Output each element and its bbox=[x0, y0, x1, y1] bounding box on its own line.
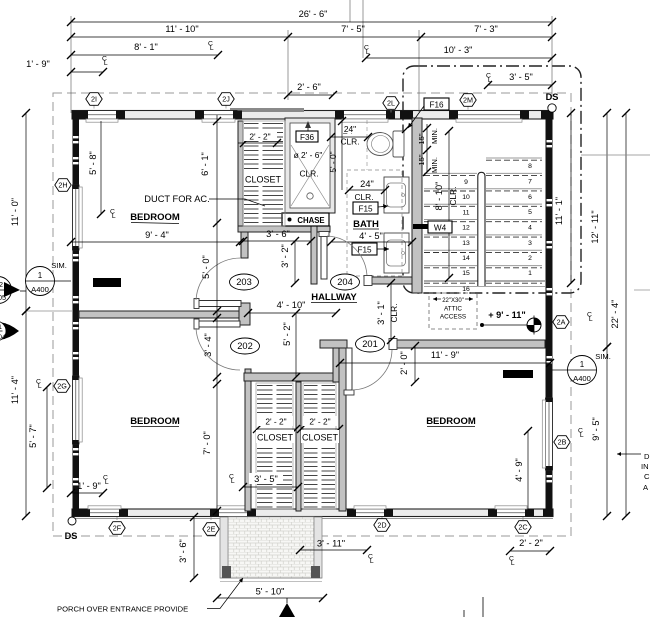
HALLWAY label bbox=[311, 292, 357, 303]
label F36 bbox=[296, 131, 318, 142]
toilet bbox=[367, 131, 404, 157]
dimension 1-9 bottom bbox=[67, 481, 107, 497]
closet 2-2 dim bbox=[238, 132, 283, 148]
svg-text:2H: 2H bbox=[58, 181, 67, 190]
svg-text:9' - 4": 9' - 4" bbox=[145, 230, 169, 240]
svg-text:15": 15" bbox=[417, 154, 426, 165]
grid bubble 2H bbox=[55, 179, 71, 192]
svg-text:CLR.: CLR. bbox=[299, 169, 318, 179]
closet shelving hatch bottom right bbox=[303, 383, 336, 509]
dimension 9-4 bedroom1 bbox=[67, 230, 244, 246]
marker line bottom right 2 bbox=[463, 610, 465, 617]
svg-text:3' - 6": 3' - 6" bbox=[178, 539, 188, 563]
grid bubble 2D bbox=[374, 519, 390, 532]
bedroom divider wall bbox=[79, 311, 245, 318]
closet 2-2 dim left bbox=[253, 416, 300, 433]
stair center rail bbox=[478, 172, 485, 286]
closet shelving hatch bottom left bbox=[256, 383, 293, 509]
svg-text:26' - 6": 26' - 6" bbox=[299, 9, 328, 19]
svg-text:CHASE: CHASE bbox=[297, 216, 324, 225]
dimension 11-9 bedroom3 bbox=[336, 350, 554, 367]
svg-text:A400: A400 bbox=[573, 374, 591, 383]
door 202 swing bbox=[196, 328, 240, 370]
svg-text:1: 1 bbox=[0, 324, 2, 331]
extension line x363 bbox=[362, 0, 364, 58]
svg-text:2C: 2C bbox=[518, 523, 527, 532]
extension line x419 bbox=[418, 30, 420, 112]
svg-text:1: 1 bbox=[528, 270, 532, 277]
centerline symbol bbox=[486, 73, 492, 85]
BEDROOM 3 label bbox=[426, 416, 476, 427]
svg-text:11' - 10": 11' - 10" bbox=[165, 24, 198, 34]
svg-text:2A: 2A bbox=[557, 318, 566, 327]
dimension 22-4 right bbox=[610, 109, 630, 520]
svg-text:DS: DS bbox=[65, 531, 78, 541]
dimension 5-2 hallway bbox=[282, 309, 300, 381]
svg-text:24": 24" bbox=[344, 124, 356, 134]
svg-text:2: 2 bbox=[0, 280, 3, 289]
svg-text:2' - 0": 2' - 0" bbox=[399, 351, 409, 375]
porch slab bbox=[220, 517, 322, 582]
window bottom W1 bbox=[81, 506, 128, 517]
stub between doors 203/202 bbox=[239, 303, 250, 325]
dimension 2-6 shower bbox=[284, 82, 337, 99]
window cl dim 4-9 bbox=[514, 427, 532, 509]
grid bubble 2B bbox=[554, 436, 570, 449]
window bottom W4 bbox=[488, 506, 534, 517]
extension line x71 bbox=[70, 16, 72, 113]
shear wall mark bedroom3 bbox=[503, 370, 533, 378]
window top W1 bbox=[79, 111, 125, 123]
label F15 lower bbox=[352, 243, 389, 255]
DS top bbox=[546, 92, 559, 112]
grid line stubs bbox=[94, 106, 523, 523]
svg-text:9' - 5": 9' - 5" bbox=[591, 417, 601, 441]
svg-text:F16: F16 bbox=[429, 100, 444, 109]
door 204 swing bbox=[327, 236, 367, 277]
closet 2-2 dim right bbox=[297, 416, 343, 433]
dimension porch 3-11 bbox=[296, 539, 371, 555]
dimension 12-11 right bbox=[590, 109, 611, 351]
svg-text:11' - 9": 11' - 9" bbox=[431, 350, 459, 360]
section callout 1/A400 left bbox=[26, 261, 72, 296]
svg-text:MIN.: MIN. bbox=[430, 128, 439, 144]
svg-text:16: 16 bbox=[462, 286, 470, 293]
hall east wall stub bbox=[311, 226, 317, 284]
svg-text:2' - 6": 2' - 6" bbox=[297, 82, 321, 92]
svg-text:A400: A400 bbox=[31, 285, 49, 294]
svg-text:5' - 0": 5' - 0" bbox=[328, 151, 338, 172]
extension line x288 bbox=[287, 30, 289, 100]
BEDROOM 2 label bbox=[130, 416, 180, 427]
svg-text:11: 11 bbox=[462, 210, 469, 217]
room tag 202 bbox=[231, 338, 260, 354]
svg-text:3: 3 bbox=[528, 240, 532, 247]
dimension 11-4 left bbox=[10, 307, 30, 520]
shear wall mark bedroom1 bbox=[93, 278, 121, 287]
svg-text:11' - 1": 11' - 1" bbox=[554, 197, 564, 225]
window top stair bbox=[449, 111, 529, 123]
svg-text:7: 7 bbox=[528, 179, 532, 186]
door 204 panel bbox=[319, 232, 329, 280]
svg-text:8' - 10": 8' - 10" bbox=[434, 182, 444, 211]
svg-text:5: 5 bbox=[528, 209, 532, 216]
dimension overall 26-6 bbox=[67, 9, 556, 26]
hallway south / closets north wall bbox=[244, 373, 340, 381]
svg-text:5' - 7": 5' - 7" bbox=[28, 424, 38, 448]
wall corner block BR bbox=[543, 509, 553, 517]
svg-text:2B: 2B bbox=[558, 438, 567, 447]
centerline symbol bbox=[364, 45, 370, 57]
dimension 11-0 left bbox=[10, 109, 30, 315]
exterior wall top bbox=[72, 111, 553, 120]
toilet centerline dashed bbox=[366, 120, 368, 170]
stair west wall bbox=[412, 118, 422, 293]
svg-text:12: 12 bbox=[462, 225, 470, 232]
dimension 4-10 hallway bbox=[244, 300, 340, 317]
wall corner block TL bbox=[72, 111, 84, 120]
bottom wall ledge line bbox=[72, 518, 553, 520]
chase label box bbox=[282, 213, 329, 226]
svg-text:14: 14 bbox=[462, 255, 470, 262]
white bg 3-5 bbox=[249, 473, 283, 484]
svg-text:7' - 3": 7' - 3" bbox=[474, 24, 498, 34]
svg-text:CLOSET: CLOSET bbox=[245, 175, 282, 185]
stair treads bbox=[424, 158, 545, 287]
centerline symbol bbox=[102, 56, 108, 68]
svg-text:C: C bbox=[644, 472, 650, 481]
svg-text:6' - 1": 6' - 1" bbox=[200, 152, 210, 176]
section callout 1/A400 right bbox=[552, 352, 611, 385]
right wall stud notches bbox=[547, 140, 553, 482]
window top W2 bbox=[195, 111, 242, 123]
exterior wall left bbox=[73, 111, 80, 517]
svg-text:11' - 0": 11' - 0" bbox=[10, 198, 20, 226]
door 203 panel bbox=[194, 299, 241, 309]
svg-text:CLOSET: CLOSET bbox=[257, 433, 294, 443]
svg-text:F36: F36 bbox=[300, 133, 315, 142]
15in min dims bbox=[402, 124, 439, 176]
left wall stud notches bbox=[73, 136, 79, 485]
svg-text:8: 8 bbox=[528, 163, 532, 170]
centerline symbol bbox=[368, 554, 374, 566]
svg-text:3' - 4": 3' - 4" bbox=[203, 333, 213, 357]
svg-text:3' - 6": 3' - 6" bbox=[266, 229, 290, 239]
svg-text:2I: 2I bbox=[91, 95, 97, 104]
dimension porch width 5-10 bbox=[213, 587, 327, 603]
grid bubble 2I bbox=[86, 93, 102, 106]
dimension 9-5 right bbox=[591, 343, 611, 520]
door 201 jamb bbox=[389, 339, 397, 350]
svg-text:3' - 1": 3' - 1" bbox=[376, 301, 386, 325]
svg-text:5' - 2": 5' - 2" bbox=[282, 322, 292, 346]
svg-text:3' - 5": 3' - 5" bbox=[509, 72, 533, 82]
centerline symbol bbox=[208, 41, 214, 53]
svg-text:CLR.: CLR. bbox=[448, 186, 458, 205]
dimension 3-1 clr bbox=[376, 279, 395, 344]
spot elevation +9-11 bbox=[480, 310, 541, 335]
closet label top bbox=[244, 172, 283, 185]
svg-text:5' - 0": 5' - 0" bbox=[201, 255, 211, 279]
svg-text:15": 15" bbox=[417, 133, 426, 144]
right note clipped bbox=[617, 452, 650, 492]
svg-text:1' - 9": 1' - 9" bbox=[26, 59, 50, 69]
porch note bbox=[57, 578, 243, 614]
BEDROOM 1 label bbox=[130, 212, 180, 224]
bedroom3 west / closet east wall bbox=[339, 348, 346, 511]
svg-text:+ 9' - 11": + 9' - 11" bbox=[488, 310, 525, 320]
centerline symbol bbox=[578, 428, 584, 440]
dimension 3-5 top bbox=[484, 72, 556, 89]
wall corner block BL bbox=[72, 509, 82, 517]
svg-text:13: 13 bbox=[462, 240, 470, 247]
door 202 panel bbox=[194, 319, 240, 329]
svg-text:MIN.: MIN. bbox=[430, 157, 439, 173]
door 201 swing bbox=[352, 350, 392, 390]
upper roof dash-dot outline bbox=[403, 66, 581, 293]
centerline symbol bbox=[36, 379, 42, 391]
svg-text:BATH: BATH bbox=[353, 219, 379, 230]
svg-text:DS: DS bbox=[546, 92, 559, 102]
DS bottom bbox=[65, 517, 78, 541]
svg-text:6: 6 bbox=[528, 194, 532, 201]
svg-text:4' - 10": 4' - 10" bbox=[277, 300, 306, 310]
svg-text:2: 2 bbox=[528, 255, 532, 262]
closet label bottom right bbox=[301, 430, 339, 443]
svg-text:BEDROOM: BEDROOM bbox=[130, 416, 180, 427]
svg-text:7' - 0": 7' - 0" bbox=[202, 431, 212, 455]
door 201 panel bbox=[344, 348, 354, 395]
hall-closet connector wall bbox=[333, 340, 341, 382]
chase wall bbox=[238, 226, 330, 232]
svg-text:CLR.: CLR. bbox=[389, 303, 399, 322]
svg-text:F15: F15 bbox=[358, 204, 373, 213]
centerline symbol bbox=[509, 556, 515, 568]
dimension 2-2 bottom right bbox=[506, 538, 554, 555]
grid bubble 2E bbox=[203, 523, 219, 536]
svg-text:2F: 2F bbox=[113, 524, 122, 533]
svg-text:3' - 2": 3' - 2" bbox=[280, 244, 290, 268]
svg-text:2G: 2G bbox=[57, 382, 67, 391]
svg-text:10' - 3": 10' - 3" bbox=[444, 45, 473, 55]
dimension 10-3 bbox=[362, 45, 556, 62]
svg-text:202: 202 bbox=[237, 341, 253, 351]
svg-text:3' - 11": 3' - 11" bbox=[317, 539, 345, 549]
DUCT FOR AC label bbox=[144, 194, 265, 206]
svg-text:11' - 4": 11' - 4" bbox=[10, 376, 20, 404]
bath clearance dashed box bbox=[347, 170, 402, 276]
svg-text:5' - 8": 5' - 8" bbox=[88, 151, 98, 175]
roof overhang dashed outline bbox=[53, 93, 571, 536]
svg-text:D: D bbox=[644, 452, 650, 461]
svg-text:1' - 9": 1' - 9" bbox=[77, 481, 101, 491]
svg-text:24": 24" bbox=[360, 179, 374, 189]
svg-text:2D: 2D bbox=[377, 521, 386, 530]
svg-text:F15: F15 bbox=[357, 245, 372, 254]
vanity sink 2 bbox=[384, 233, 409, 273]
bedroom2 east wall bbox=[245, 369, 251, 511]
svg-text:1: 1 bbox=[580, 360, 585, 369]
top wall eave band bbox=[230, 108, 304, 112]
closet west wall bbox=[238, 121, 243, 232]
svg-text:ø 2' - 6": ø 2' - 6" bbox=[294, 150, 323, 160]
svg-text:12' - 11": 12' - 11" bbox=[590, 210, 600, 243]
extension line x552 bbox=[551, 16, 553, 97]
svg-text:15: 15 bbox=[462, 270, 470, 277]
centerline symbol bbox=[587, 312, 593, 324]
dimension 3-5 bottom bbox=[239, 474, 302, 491]
centerline symbol bbox=[229, 474, 235, 486]
grid bubble 2C bbox=[515, 521, 531, 534]
svg-text:9: 9 bbox=[464, 179, 468, 186]
right edge line y155 bbox=[581, 154, 650, 156]
svg-text:CLR.: CLR. bbox=[340, 137, 359, 147]
bath vert dim line bbox=[338, 117, 346, 190]
svg-text:1: 1 bbox=[38, 271, 43, 280]
svg-text:ATTIC: ATTIC bbox=[444, 306, 462, 313]
dimension 1-9 top bbox=[26, 59, 107, 76]
svg-text:204: 204 bbox=[337, 277, 353, 287]
closet divider wall bbox=[296, 382, 301, 511]
left dim extension bbox=[26, 310, 72, 312]
window left upper bbox=[73, 185, 83, 250]
dimension 3-6 hall bbox=[239, 229, 315, 245]
hall south wall piece bbox=[320, 340, 347, 348]
svg-text:IN: IN bbox=[641, 462, 649, 471]
window bottom W3 bbox=[347, 506, 393, 517]
centerline symbol bbox=[110, 209, 116, 221]
exterior wall bottom bbox=[72, 509, 553, 517]
dimension 2-0 door201 bbox=[399, 342, 419, 386]
svg-text:ACCESS: ACCESS bbox=[440, 314, 466, 321]
svg-text:BEDROOM: BEDROOM bbox=[130, 212, 180, 223]
window right bbox=[542, 398, 552, 470]
wall above door 203 bbox=[241, 232, 248, 258]
marker line bottom right bbox=[482, 597, 484, 617]
grid bubble 2A bbox=[553, 316, 569, 329]
dimension 24in clr toilet bbox=[327, 126, 372, 141]
dimension 24in clr vanity bbox=[345, 179, 389, 194]
svg-text:2J: 2J bbox=[222, 95, 230, 104]
svg-text:2E: 2E bbox=[207, 525, 216, 534]
room tag 204 bbox=[331, 274, 360, 290]
grid bubble 2L bbox=[383, 97, 399, 110]
svg-text:BEDROOM: BEDROOM bbox=[426, 416, 476, 427]
attic access dashed box bbox=[429, 293, 477, 329]
dimension 3-2 bbox=[280, 237, 299, 287]
bath south wall bbox=[365, 277, 422, 284]
svg-text:PORCH OVER ENTRANCE PROVIDE: PORCH OVER ENTRANCE PROVIDE bbox=[57, 605, 188, 614]
label F15 upper bbox=[353, 202, 388, 214]
window top bath bbox=[335, 111, 395, 123]
svg-text:2' - 2": 2' - 2" bbox=[265, 417, 286, 427]
dimension 11-1 right bbox=[554, 109, 575, 287]
label F16 bbox=[408, 98, 449, 128]
room tag 203 bbox=[230, 274, 259, 290]
svg-text:4' - 5": 4' - 5" bbox=[359, 231, 383, 241]
room tag 201 bbox=[356, 336, 385, 352]
shower F36 enclosure bbox=[285, 118, 335, 213]
window bottom W2 bbox=[210, 506, 256, 517]
section marker left clipped upper bbox=[0, 277, 26, 304]
svg-text:4: 4 bbox=[528, 225, 532, 232]
svg-text:3' - 5": 3' - 5" bbox=[254, 474, 278, 484]
svg-text:HALLWAY: HALLWAY bbox=[311, 292, 357, 303]
svg-text:22"X30": 22"X30" bbox=[442, 298, 464, 304]
grid bubble 2J bbox=[218, 93, 234, 106]
svg-text:SIM.: SIM. bbox=[595, 352, 611, 361]
24 text bbox=[340, 124, 360, 135]
svg-text:SIM.: SIM. bbox=[51, 261, 67, 270]
dim row2 bbox=[67, 24, 556, 41]
svg-text:7' - 5": 7' - 5" bbox=[341, 24, 365, 34]
svg-text:2M: 2M bbox=[463, 96, 473, 105]
dimension bath width 4-5 bbox=[327, 231, 416, 246]
extension line x350 bbox=[349, 0, 351, 22]
dimension 5-7 left bbox=[28, 383, 51, 492]
dimension porch depth 3-6 bbox=[178, 513, 198, 582]
svg-text:2' - 2": 2' - 2" bbox=[519, 538, 543, 548]
exterior wall right bbox=[546, 111, 553, 517]
door 204 jamb bbox=[364, 276, 372, 286]
grid bubble 2M bbox=[460, 94, 476, 107]
vanity sink 1 bbox=[384, 177, 409, 213]
svg-text:5' - 10": 5' - 10" bbox=[256, 587, 285, 597]
dimension stair 8-10 bbox=[434, 127, 453, 282]
dimension 8-1 bbox=[67, 42, 222, 59]
closet shelving hatch top bbox=[243, 121, 285, 226]
section marker bottom (clipped) bbox=[279, 598, 295, 617]
centerline symbol bbox=[103, 475, 109, 487]
svg-text:2' - 2": 2' - 2" bbox=[309, 417, 330, 427]
right edge line y290 bbox=[634, 289, 650, 291]
svg-text:CLR.: CLR. bbox=[354, 192, 373, 202]
grid bubble 2G bbox=[54, 380, 70, 393]
closet label bottom left bbox=[256, 430, 294, 443]
BATH label bbox=[353, 219, 379, 230]
vert dim chain x217 bbox=[200, 115, 221, 515]
svg-text:4' - 9": 4' - 9" bbox=[514, 458, 524, 482]
svg-text:2' - 2": 2' - 2" bbox=[249, 132, 270, 142]
svg-text:201: 201 bbox=[362, 339, 378, 349]
svg-text:CLOSET: CLOSET bbox=[302, 433, 339, 443]
svg-text:8' - 1": 8' - 1" bbox=[134, 42, 158, 52]
wall tag W4 bbox=[413, 221, 452, 233]
svg-text:203: 203 bbox=[236, 277, 252, 287]
window cl dim 5-8 bbox=[88, 121, 105, 218]
svg-text:W4: W4 bbox=[434, 223, 447, 232]
svg-text:22' - 4": 22' - 4" bbox=[610, 300, 620, 329]
grid bubble 2F bbox=[109, 522, 125, 535]
section marker left clipped lower bbox=[0, 321, 19, 341]
svg-text:2L: 2L bbox=[387, 99, 395, 108]
svg-text:DUCT FOR AC.: DUCT FOR AC. bbox=[144, 194, 209, 204]
stair tread numbers bbox=[462, 163, 532, 293]
wall block top x400 bbox=[400, 111, 413, 120]
door 203 swing bbox=[196, 258, 241, 300]
window left lower bbox=[73, 376, 83, 444]
wall corner block TR bbox=[541, 111, 553, 120]
svg-text:04: 04 bbox=[0, 334, 6, 341]
bedroom3 north wall bbox=[391, 340, 545, 348]
svg-text:10: 10 bbox=[462, 194, 470, 201]
